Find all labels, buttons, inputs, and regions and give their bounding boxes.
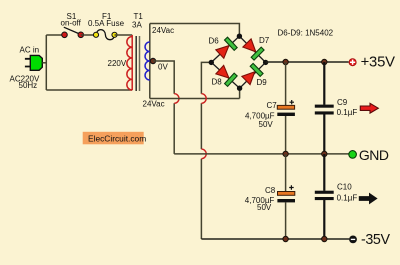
capacitor C9 (0.1uF) [315,105,334,115]
bridge rectifier arms [211,36,265,88]
svg-text:24Vac: 24Vac [152,26,174,35]
ElecCircuit.com badge [83,132,146,145]
wire: secondary top 24Vac to bridge top [150,24,240,37]
wire: top to switch [46,34,62,36]
arrow: +35V output (red) [360,103,378,113]
svg-text:D8: D8 [212,78,223,87]
capacitor C8 (4,700uF electrolytic) [277,185,295,202]
node: -35V rail / C8 [283,236,288,241]
fuse F1 [93,30,117,40]
wire: fuse to transformer [115,34,133,36]
terminal -35V [349,236,357,244]
node: -35V rail / C10 [322,236,327,241]
wire: +35V rail [266,61,349,63]
svg-text:GND: GND [359,147,389,163]
wire: bottom primary [46,89,132,91]
svg-text:24Vac: 24Vac [143,100,165,109]
node: bridge bottom [237,86,242,91]
wire: C8 lower [285,202,287,239]
wire: GND rail [174,153,348,155]
svg-text:C9: C9 [337,98,348,107]
wire: secondary bottom 24Vac to bridge bottom [150,88,240,98]
svg-text:50V: 50V [257,203,272,212]
wire: C7 upper [285,62,287,106]
svg-text:D7: D7 [259,36,270,45]
svg-text:0.1µF: 0.1µF [337,108,358,117]
node: +35V rail / C9 [322,59,327,64]
svg-text:50Hz: 50Hz [19,81,38,90]
svg-text:+35V: +35V [361,55,395,71]
hop: 0V wire over 24Vac wire [174,94,179,104]
svg-text:D6-D9: 1N5402: D6-D9: 1N5402 [278,29,334,38]
hop: left-node wire over 24Vac wire [201,94,206,104]
wire: input vertical [45,35,47,90]
node: bridge right [263,60,268,65]
wire: 0V to GND rail (with hop over 24Vac wire) [153,61,174,154]
hop: left-node wire over GND rail [201,149,206,159]
terminal +35V [349,59,356,66]
capacitor C7 (4,700uF electrolytic) [277,100,295,116]
switch S1 [62,27,84,37]
terminal GND [349,151,357,159]
arrow: -35V output (black) [359,193,378,205]
wire: bridge left node to -35V rail (hops over 24Vac wire and GND rail) [201,62,211,239]
node 0V center tap [150,58,155,63]
AC plug (mains input) [25,55,46,70]
node: GND rail / C9-C10 [322,151,327,156]
wire: C9 upper [323,62,325,105]
wire: C10 lower [323,200,325,239]
wire: C7 lower [285,116,287,154]
svg-text:50V: 50V [259,120,274,129]
diode D6 [215,37,237,59]
svg-text:3A: 3A [132,21,142,30]
svg-text:C8: C8 [265,186,276,195]
node: GND rail / C7-C8 [283,151,288,156]
svg-text:D9: D9 [257,78,268,87]
svg-text:C10: C10 [337,183,352,192]
svg-text:0V: 0V [158,63,168,72]
capacitor C10 (0.1uF) [315,191,334,200]
diode D7 [242,38,264,60]
transformer core [135,36,137,91]
node: +35V rail / C7 [283,59,288,64]
transformer T1 secondary winding [145,24,150,99]
wire: switch to fuse [81,34,96,36]
wire: C10 upper [323,154,325,191]
svg-text:0.1µF: 0.1µF [337,194,358,203]
svg-text:C7: C7 [267,101,278,110]
diode D9 [241,63,263,85]
svg-text:220V: 220V [108,59,127,68]
node: bridge top [237,34,242,39]
svg-text:D6: D6 [209,37,220,46]
diode D8 [215,64,237,86]
svg-text:on-off: on-off [61,19,82,28]
svg-text:AC in: AC in [20,46,40,55]
svg-text:0.5A Fuse: 0.5A Fuse [88,19,125,28]
wire: C8 upper [285,154,287,192]
wire: -35V rail [201,238,349,240]
svg-text:-35V: -35V [361,232,390,248]
wire: C9 lower [323,114,325,154]
node: bridge left [209,60,214,65]
svg-text:ElecCircuit.com: ElecCircuit.com [88,133,146,143]
transformer T1 primary winding [127,35,132,90]
